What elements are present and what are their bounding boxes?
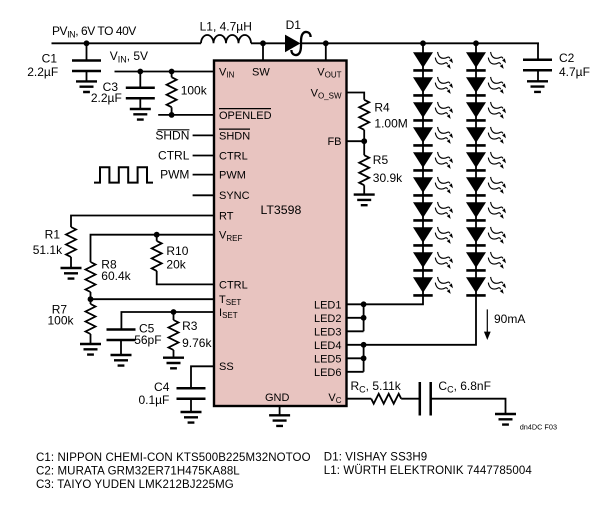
svg-text:FB: FB xyxy=(327,136,341,148)
svg-text:R3: R3 xyxy=(182,319,198,333)
LED string1 #8 xyxy=(413,227,453,246)
wire SW drop xyxy=(262,43,264,60)
node FB junction xyxy=(361,138,367,144)
node VOUT junction xyxy=(323,40,329,46)
LED string2 #2 xyxy=(466,77,506,96)
capacitor C1 xyxy=(86,43,88,81)
svg-text:R10: R10 xyxy=(166,244,188,258)
resistor RC xyxy=(371,394,401,404)
LED string1 #6 xyxy=(413,177,453,196)
svg-text:RT: RT xyxy=(219,210,234,222)
inductor L1 xyxy=(201,35,251,43)
svg-text:L1, 4.7µH: L1, 4.7µH xyxy=(200,20,252,34)
IC pin labels xyxy=(219,67,342,406)
wire VIN 5V rail xyxy=(115,71,215,73)
svg-text:R4: R4 xyxy=(374,101,390,115)
node LED4 xyxy=(361,342,367,348)
svg-text:LED4: LED4 xyxy=(314,340,342,352)
LED string2 #9 xyxy=(466,252,506,271)
wire VOSW xyxy=(347,93,365,100)
wire CTRL2 from R10 xyxy=(157,271,214,285)
resistor R1 xyxy=(66,227,76,257)
svg-text:dn4DC F03: dn4DC F03 xyxy=(520,423,557,432)
svg-text:GND: GND xyxy=(265,392,290,404)
svg-text:PWM: PWM xyxy=(160,168,189,182)
svg-text:C2: C2 xyxy=(559,51,575,65)
svg-text:C3: TAIYO YUDEN LMK212BJ225MG: C3: TAIYO YUDEN LMK212BJ225MG xyxy=(36,479,234,491)
svg-text:2.2µF: 2.2µF xyxy=(91,91,122,105)
90mA current arrow xyxy=(486,309,488,333)
wire LED4-LED6 bus xyxy=(347,345,364,372)
wire CTRL stub xyxy=(193,155,214,157)
svg-text:PWM: PWM xyxy=(219,170,246,182)
ground R5 xyxy=(354,195,375,206)
wire PVIN top rail xyxy=(52,42,202,44)
svg-text:LED1: LED1 xyxy=(314,299,342,311)
wire RT xyxy=(71,216,214,228)
svg-text:9.76k: 9.76k xyxy=(182,336,212,350)
ground C2 xyxy=(527,81,548,92)
ground GND pin xyxy=(269,415,290,426)
svg-text:0.1µF: 0.1µF xyxy=(138,393,169,407)
LED string2 #8 xyxy=(466,227,506,246)
node LED5 xyxy=(361,355,367,361)
LED string 2 vertical wire xyxy=(364,43,476,345)
LED string1 #3 xyxy=(413,102,453,121)
resistor R10 xyxy=(156,235,158,241)
wire SYNC stub xyxy=(193,194,214,196)
svg-text:SHDN: SHDN xyxy=(155,128,189,142)
svg-text:90mA: 90mA xyxy=(494,312,525,326)
node R10 top xyxy=(154,232,160,238)
svg-text:56pF: 56pF xyxy=(134,333,161,347)
svg-text:VIN, 5V: VIN, 5V xyxy=(110,49,148,65)
LED string1 #9 xyxy=(413,252,453,271)
node LED2 xyxy=(361,315,367,321)
wire VREF xyxy=(91,235,215,262)
svg-text:LED3: LED3 xyxy=(314,326,342,338)
svg-text:C1: C1 xyxy=(42,52,58,66)
ground C1 xyxy=(76,81,97,92)
capacitor C2 xyxy=(537,43,539,81)
LED string2 #4 xyxy=(466,127,506,146)
svg-text:1.00M: 1.00M xyxy=(374,116,407,130)
svg-text:CC, 6.8nF: CC, 6.8nF xyxy=(438,379,491,395)
svg-text:LED2: LED2 xyxy=(314,313,342,325)
LED string1 #2 xyxy=(413,77,453,96)
node PVIN/C1 junction xyxy=(84,40,90,46)
resistor R8 xyxy=(86,262,96,292)
wire SS xyxy=(191,366,214,388)
capacitor C5 xyxy=(107,330,136,341)
svg-text:100k: 100k xyxy=(181,84,208,98)
ground C4 xyxy=(181,412,202,423)
svg-text:D1: VISHAY SS3H9: D1: VISHAY SS3H9 xyxy=(324,452,427,464)
wire ISET xyxy=(121,312,214,330)
svg-text:C2: MURATA GRM32ER71H475KA88L: C2: MURATA GRM32ER71H475KA88L xyxy=(36,465,240,477)
node 100k top xyxy=(169,69,175,75)
LED string1 #10 xyxy=(413,277,453,296)
resistor R3 xyxy=(173,312,175,320)
node TSET junction xyxy=(88,296,94,302)
wire PWM stub xyxy=(193,174,214,176)
node LED1 xyxy=(361,301,367,307)
PWM square wave symbol xyxy=(94,167,153,182)
wire RC to CC xyxy=(401,398,420,400)
wire D1 cathode to C2 corner xyxy=(301,42,539,44)
svg-text:LED6: LED6 xyxy=(314,367,342,379)
svg-text:20k: 20k xyxy=(166,258,186,272)
svg-text:30.9k: 30.9k xyxy=(373,171,403,185)
svg-text:R5: R5 xyxy=(373,153,389,167)
IC U1 LT3598 body xyxy=(214,61,347,407)
diode D1 (schottky) xyxy=(285,35,301,53)
svg-text:PVIN, 6V TO 40V: PVIN, 6V TO 40V xyxy=(52,24,136,40)
LED string2 #6 xyxy=(466,177,506,196)
node 100k bottom xyxy=(169,112,175,118)
resistor R2 100k xyxy=(171,72,173,115)
svg-text:2.2µF: 2.2µF xyxy=(27,65,58,79)
svg-text:SHDN: SHDN xyxy=(219,130,250,142)
node R3 top xyxy=(171,309,177,315)
ground C3 xyxy=(130,109,151,120)
svg-text:C4: C4 xyxy=(154,380,170,394)
wire L1 to D1 anode xyxy=(251,42,285,44)
node C3 tap xyxy=(137,69,143,75)
svg-text:C1: NIPPON CHEMI-CON KTS500B22: C1: NIPPON CHEMI-CON KTS500B225M32NOTOO xyxy=(36,452,311,464)
wire VOUT drop xyxy=(325,43,327,60)
wire GND pin xyxy=(279,406,281,415)
wire OPENLED xyxy=(158,114,214,116)
node LED string2 top xyxy=(473,40,479,46)
LED string1 #5 xyxy=(413,152,453,171)
node SW junction xyxy=(260,40,266,46)
svg-text:OPENLED: OPENLED xyxy=(219,110,272,122)
svg-text:SYNC: SYNC xyxy=(219,190,250,202)
wire TSET xyxy=(91,298,214,300)
svg-text:D1: D1 xyxy=(286,18,302,32)
svg-text:CTRL: CTRL xyxy=(219,150,248,162)
ground R3 xyxy=(163,358,184,369)
capacitor CC xyxy=(420,382,431,416)
svg-text:R1: R1 xyxy=(45,227,61,241)
LED string2 #1 xyxy=(466,52,506,71)
svg-text:51.1k: 51.1k xyxy=(33,243,63,257)
svg-text:4.7µF: 4.7µF xyxy=(559,65,590,79)
svg-text:CTRL: CTRL xyxy=(158,148,190,162)
LED string2 #3 xyxy=(466,102,506,121)
svg-text:CTRL: CTRL xyxy=(219,279,248,291)
bottom notes xyxy=(36,452,532,491)
capacitor C4 xyxy=(177,388,206,399)
capacitor C3 xyxy=(139,72,141,110)
LED string2 #7 xyxy=(466,202,506,221)
svg-text:L1: WÜRTH ELEKTRONIK 744778500: L1: WÜRTH ELEKTRONIK 7447785004 xyxy=(324,465,533,477)
svg-text:100k: 100k xyxy=(47,314,74,328)
wire LED1-LED3 bus xyxy=(347,304,364,331)
resistor R7 xyxy=(90,299,92,304)
LED string1 #7 xyxy=(413,202,453,221)
svg-text:SS: SS xyxy=(219,361,234,373)
node LED string1 top xyxy=(420,40,426,46)
svg-text:LT3598: LT3598 xyxy=(261,203,302,217)
svg-text:60.4k: 60.4k xyxy=(101,269,131,283)
wire SHDN stub xyxy=(193,134,214,136)
svg-text:SW: SW xyxy=(252,67,270,79)
wire FB xyxy=(347,140,365,142)
resistor R4 xyxy=(359,100,369,130)
ground R1 xyxy=(61,268,82,279)
wire VC xyxy=(347,398,372,400)
LED string1 #1 xyxy=(413,52,453,71)
LED string1 #4 xyxy=(413,127,453,146)
wire CC to ground xyxy=(431,399,506,414)
ground C5 xyxy=(111,355,132,366)
svg-text:LED5: LED5 xyxy=(314,353,342,365)
LED string2 #10 xyxy=(466,277,506,296)
LED string2 #5 xyxy=(466,152,506,171)
resistor R5 xyxy=(363,141,365,155)
svg-text:RC, 5.11k: RC, 5.11k xyxy=(351,379,402,395)
ground CC xyxy=(495,414,516,425)
ground R7 xyxy=(80,344,101,355)
LED string 1 vertical wire xyxy=(364,43,423,304)
